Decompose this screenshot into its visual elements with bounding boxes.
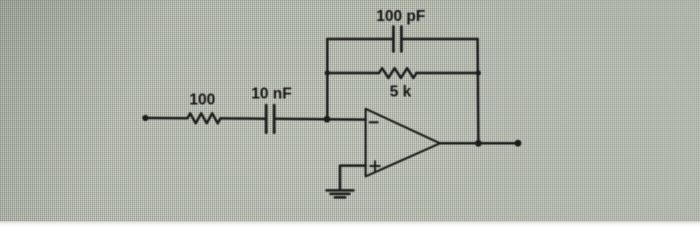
ground [327,190,354,197]
op-amp U1 inverting pin marker [370,121,378,123]
svg-text:10 nF: 10 nF [251,86,291,103]
wire top branch right [403,38,478,41]
wire middle branch right [417,72,478,75]
op-amp U1 non-inverting pin marker [370,161,379,170]
wire feedback left riser [326,39,329,119]
resistor R1 value 100 [188,113,221,123]
output terminal node [515,140,522,147]
wire middle branch left [327,72,379,75]
svg-text:100 pF: 100 pF [376,8,425,25]
wire node A to op-amp inverting input [327,118,366,121]
op-amp U1 triangle [366,109,440,177]
wire input lead [145,117,187,120]
wire resistor to capacitor [221,117,265,120]
wire top branch left [327,38,393,41]
wire feedback right riser [476,39,479,143]
input terminal node [142,115,148,121]
wire non-inverting input to ground [340,166,366,190]
capacitor C2 plate left [392,27,395,52]
node output junction [475,140,482,147]
node A junction [324,116,331,123]
capacitor C1 plate right [273,105,276,132]
wire output [440,142,518,145]
wire capacitor to node A [276,118,327,121]
node junction right of R2 [476,70,481,75]
svg-text:5 k: 5 k [390,83,412,100]
node junction left of R2 [325,70,330,75]
capacitor C2 plate right [400,27,403,52]
resistor R2 value 5k [379,68,417,78]
svg-text:100: 100 [189,92,215,109]
capacitor C1 plate left [265,105,268,132]
